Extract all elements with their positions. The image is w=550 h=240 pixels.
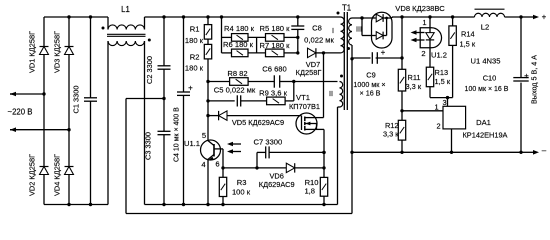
wire lower link <box>126 213 352 215</box>
svg-text:C6 680: C6 680 <box>262 65 287 74</box>
svg-text:КД258Г: КД258Г <box>296 68 322 77</box>
regulator DA1 box <box>443 106 466 129</box>
phase dot L1 right <box>148 39 151 42</box>
svg-text:VT1: VT1 <box>296 93 310 102</box>
optocoupler U1 label <box>471 57 501 66</box>
wire DA1 pin2 <box>436 122 453 155</box>
phase dot winding II <box>340 75 343 78</box>
transistor VT1 labels <box>289 93 320 111</box>
pin 2 label <box>421 49 425 58</box>
transistor VT1 circle <box>296 113 317 134</box>
svg-text:C8: C8 <box>312 24 322 33</box>
phase dot winding III <box>347 47 350 50</box>
svg-text:× 16 В: × 16 В <box>360 89 381 98</box>
resistor R6 <box>222 40 254 56</box>
wire winding III to VD8 <box>352 16 372 19</box>
svg-text:R6 180 к: R6 180 к <box>223 40 254 49</box>
light arrows to U1.1 <box>227 142 241 154</box>
svg-text:III: III <box>356 25 362 34</box>
wire U1.1 emitter to rail <box>206 160 209 206</box>
wire primary minus rail <box>145 204 338 206</box>
svg-text:+: + <box>381 48 386 57</box>
svg-text:–: – <box>542 146 547 155</box>
wire VD7 to drain <box>322 51 325 117</box>
resistor R9 <box>259 89 294 105</box>
resistor R2 <box>185 44 212 72</box>
wire DA1 pin1 <box>402 103 443 112</box>
inductor L1 label <box>121 5 130 14</box>
svg-text:+: + <box>188 84 193 93</box>
wire R11 R12 node <box>400 91 403 120</box>
svg-text:VD5 КД629АС9: VD5 КД629АС9 <box>232 118 284 127</box>
svg-text:Выход 5 В, 4 А: Выход 5 В, 4 А <box>530 55 539 104</box>
wire clamp right vertical <box>296 37 299 54</box>
svg-text:U1.2: U1.2 <box>431 51 447 60</box>
wire C2C3 midpoint link <box>126 97 166 214</box>
phase dot L1 left <box>102 27 105 30</box>
resistor R1 <box>185 25 212 45</box>
svg-text:U1 4N35: U1 4N35 <box>471 57 501 66</box>
wire feedback to winding II <box>294 81 338 83</box>
svg-text:VD2 КД258Г: VD2 КД258Г <box>28 154 37 196</box>
resistor R7 <box>248 41 298 56</box>
svg-text:R5 180 к: R5 180 к <box>260 24 291 33</box>
svg-text:3,3 к: 3,3 к <box>406 82 422 91</box>
optocoupler U1.2 label <box>431 51 447 60</box>
wire top rail from bridge to L1 <box>44 16 108 18</box>
optocoupler U1.2 shape <box>420 28 441 48</box>
svg-text:L1: L1 <box>121 5 130 14</box>
svg-text:3: 3 <box>442 98 446 107</box>
svg-text:U1.1: U1.1 <box>184 139 200 148</box>
capacitor C2 <box>145 15 171 98</box>
regulator DA1 labels <box>463 118 508 140</box>
LED U1.2 <box>426 15 434 67</box>
winding I <box>341 17 345 53</box>
svg-text:I: I <box>332 26 334 35</box>
inductor L1 bottom winding <box>108 41 145 205</box>
svg-text:VD1 КД258Г: VD1 КД258Г <box>28 31 37 73</box>
transistor U1.1 circle <box>201 140 221 160</box>
svg-text:C10: C10 <box>483 74 497 83</box>
wire AC input upper <box>10 92 46 97</box>
svg-text:R9 3,6 к: R9 3,6 к <box>259 89 287 98</box>
diode VD8 label <box>395 4 445 13</box>
resistor R13 <box>426 67 451 87</box>
resistor R3 <box>219 166 250 206</box>
svg-text:R13: R13 <box>435 68 449 77</box>
svg-text:R4 180 к: R4 180 к <box>224 24 255 33</box>
svg-text:180 к: 180 к <box>185 36 204 45</box>
svg-text:R8 82: R8 82 <box>227 69 247 78</box>
svg-text:R3: R3 <box>237 178 247 187</box>
pin 1 label <box>422 18 426 27</box>
svg-text:1000 мк ×: 1000 мк × <box>353 80 385 89</box>
wire VD1-VD2 branch <box>43 17 45 205</box>
wire top rail L1 to T1 <box>145 16 341 18</box>
phase dot winding I <box>337 12 340 15</box>
diode VD8 bottom half <box>372 17 389 40</box>
light arrows from U1.2 <box>411 30 425 42</box>
svg-text:1: 1 <box>434 103 438 112</box>
wire AC input lower <box>10 127 71 132</box>
svg-text:VD3 КД258Г: VD3 КД258Г <box>53 31 62 73</box>
capacitor C1 <box>72 15 98 206</box>
wire source lead <box>317 129 326 168</box>
diode VD2 <box>28 154 49 196</box>
svg-text:КР142ЕН19А: КР142ЕН19А <box>463 131 508 140</box>
svg-text:R2: R2 <box>190 53 200 62</box>
resistor R11 <box>398 15 422 91</box>
diode VD1 <box>28 31 49 73</box>
svg-text:180 к: 180 к <box>185 64 204 73</box>
svg-text:100 к: 100 к <box>232 188 251 197</box>
output plus arrow <box>521 13 547 22</box>
label winding I <box>332 26 334 35</box>
winding III <box>349 18 352 59</box>
wire DA1 pin3 <box>447 98 449 107</box>
transformer T1 label <box>342 4 351 13</box>
diode VD5 <box>208 111 302 127</box>
svg-text:VD6: VD6 <box>270 171 284 180</box>
svg-text:КП707В1: КП707В1 <box>289 102 320 111</box>
wire winding I bottom <box>324 52 341 54</box>
capacitor C6 <box>248 65 295 88</box>
transistor U1.1 internals <box>208 141 223 168</box>
label ~220 В <box>8 108 33 117</box>
wire R13 to DA1 <box>430 87 453 100</box>
inductor L2 <box>475 9 505 31</box>
svg-text:~220 В: ~220 В <box>8 108 33 117</box>
transistor VT1 internals <box>302 116 317 131</box>
capacitor C5 <box>208 85 267 106</box>
wire VD3-VD4 branch <box>67 15 70 206</box>
label output <box>530 55 539 104</box>
svg-text:DA1: DA1 <box>476 118 491 127</box>
svg-text:T1: T1 <box>342 4 351 13</box>
svg-text:0,022 мк: 0,022 мк <box>304 36 334 45</box>
wire secondary top rail <box>392 17 475 18</box>
wire gate vertical <box>206 15 209 140</box>
diode VD6 <box>259 163 326 189</box>
diode VD7 <box>296 48 324 77</box>
diode VD8 top half <box>372 14 393 22</box>
wire VD6 row <box>223 166 286 169</box>
pin 3 label <box>442 98 446 107</box>
capacitor C4 <box>174 15 194 206</box>
svg-text:1,5 к: 1,5 к <box>460 40 476 49</box>
svg-text:C1 3300: C1 3300 <box>72 86 81 114</box>
diode VD8 capsule <box>372 12 393 48</box>
diode VD4 <box>53 154 74 196</box>
svg-text:+: + <box>542 13 547 22</box>
svg-text:R14: R14 <box>461 30 475 39</box>
svg-text:C2 3300: C2 3300 <box>145 56 154 84</box>
capacitor C10 <box>465 17 530 154</box>
svg-text:C9: C9 <box>366 70 375 79</box>
resistor R14 <box>449 15 476 97</box>
diode VD3 <box>53 31 74 73</box>
capacitor C8 <box>291 15 334 44</box>
capacitor C7 <box>254 138 326 168</box>
svg-text:VD4 КД258Г: VD4 КД258Г <box>53 154 62 196</box>
svg-text:+: + <box>524 71 529 80</box>
wire R9 up <box>293 82 295 101</box>
optocoupler U1.1 label <box>184 139 200 148</box>
svg-text:R7 180 к: R7 180 к <box>260 41 291 50</box>
resistor R5 <box>248 24 298 41</box>
resistor R8 <box>208 69 248 85</box>
resistor R10 <box>304 168 327 206</box>
svg-text:R12: R12 <box>385 121 399 130</box>
pin 5 label <box>202 131 206 140</box>
label winding II <box>329 89 333 98</box>
wire clamp left vertical <box>220 15 223 53</box>
svg-text:R1: R1 <box>190 25 200 34</box>
capacitor C9 <box>352 48 402 98</box>
pin 4 label <box>201 160 205 169</box>
svg-text:C7 3300: C7 3300 <box>254 138 283 147</box>
wire rail to C10 <box>505 15 523 18</box>
svg-text:II: II <box>329 89 333 98</box>
svg-text:2: 2 <box>436 122 440 131</box>
wire VD8 anode parallel <box>362 18 372 36</box>
svg-text:6: 6 <box>215 160 219 169</box>
svg-text:100 мк × 16 В: 100 мк × 16 В <box>465 86 509 93</box>
svg-text:4: 4 <box>201 160 205 169</box>
pin 6 label <box>215 160 219 169</box>
svg-text:3,3 к: 3,3 к <box>383 130 399 139</box>
wire drain lead <box>317 117 324 119</box>
resistor R4 <box>222 24 255 41</box>
svg-text:5: 5 <box>202 131 206 140</box>
label winding III <box>356 25 362 34</box>
output minus arrow <box>521 146 547 155</box>
inductor L1 top winding <box>108 17 145 30</box>
wire winding III bottom vertical <box>350 57 353 213</box>
svg-text:C4 10 мк × 400 В: C4 10 мк × 400 В <box>174 107 181 162</box>
svg-text:1,5 к: 1,5 к <box>435 77 451 86</box>
svg-text:L2: L2 <box>481 23 489 32</box>
svg-text:1: 1 <box>422 18 426 27</box>
core L1 <box>107 34 146 36</box>
svg-text:VD8 КД238ВС: VD8 КД238ВС <box>395 4 445 13</box>
svg-text:2: 2 <box>421 49 425 58</box>
capacitor C3 <box>144 99 171 207</box>
svg-text:C3 3300: C3 3300 <box>144 132 153 160</box>
svg-text:C5 0,022 мк: C5 0,022 мк <box>214 85 256 94</box>
svg-text:КД629АС9: КД629АС9 <box>259 180 295 189</box>
wire secondary common rail <box>352 151 521 153</box>
core T1 <box>344 12 347 110</box>
wire clamp mid vertical <box>256 37 258 53</box>
winding II <box>338 82 343 205</box>
svg-text:1,8: 1,8 <box>304 187 315 196</box>
wire bottom rail bridge <box>44 204 108 206</box>
svg-text:R11: R11 <box>408 73 421 82</box>
resistor R12 <box>383 120 406 154</box>
